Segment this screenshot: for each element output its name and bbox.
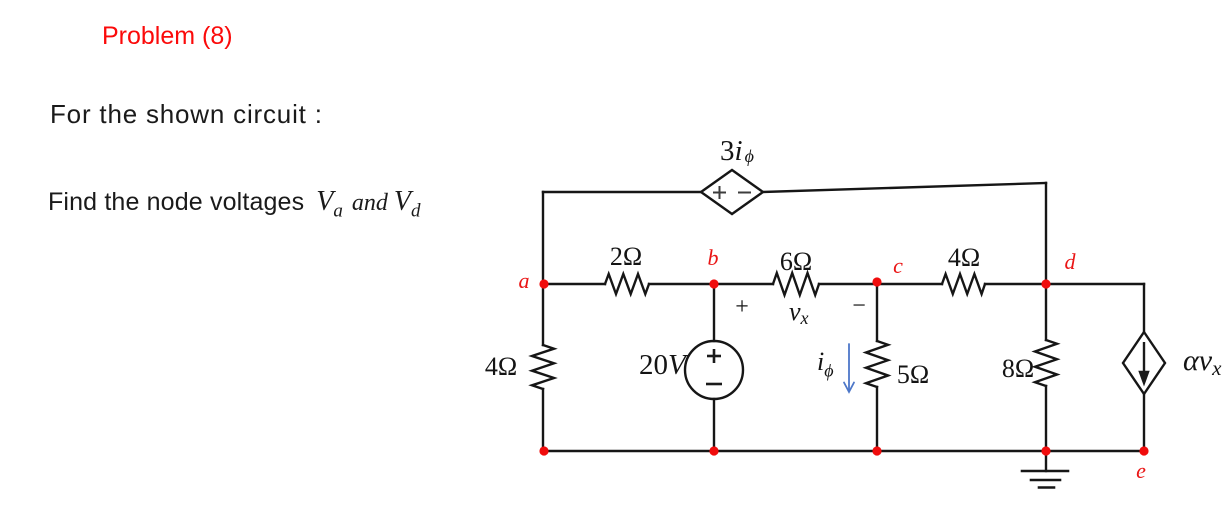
- svg-text:3iϕ: 3iϕ: [720, 135, 754, 167]
- svg-text:4Ω: 4Ω: [948, 243, 980, 272]
- svg-text:20V: 20V: [639, 349, 689, 381]
- svg-text:+: +: [735, 294, 749, 320]
- svg-text:a: a: [519, 268, 530, 293]
- svg-text:iϕ: iϕ: [817, 347, 834, 381]
- svg-text:8Ω: 8Ω: [1002, 354, 1034, 383]
- svg-text:vx: vx: [789, 297, 809, 328]
- svg-text:αvx: αvx: [1183, 344, 1222, 380]
- svg-text:4Ω: 4Ω: [485, 352, 517, 381]
- svg-text:−: −: [852, 293, 866, 319]
- svg-text:5Ω: 5Ω: [897, 360, 929, 389]
- svg-text:d: d: [1065, 249, 1077, 274]
- svg-text:2Ω: 2Ω: [610, 242, 642, 271]
- svg-text:e: e: [1136, 458, 1146, 483]
- svg-text:b: b: [708, 245, 719, 270]
- svg-text:c: c: [893, 253, 903, 278]
- svg-text:6Ω: 6Ω: [780, 247, 812, 276]
